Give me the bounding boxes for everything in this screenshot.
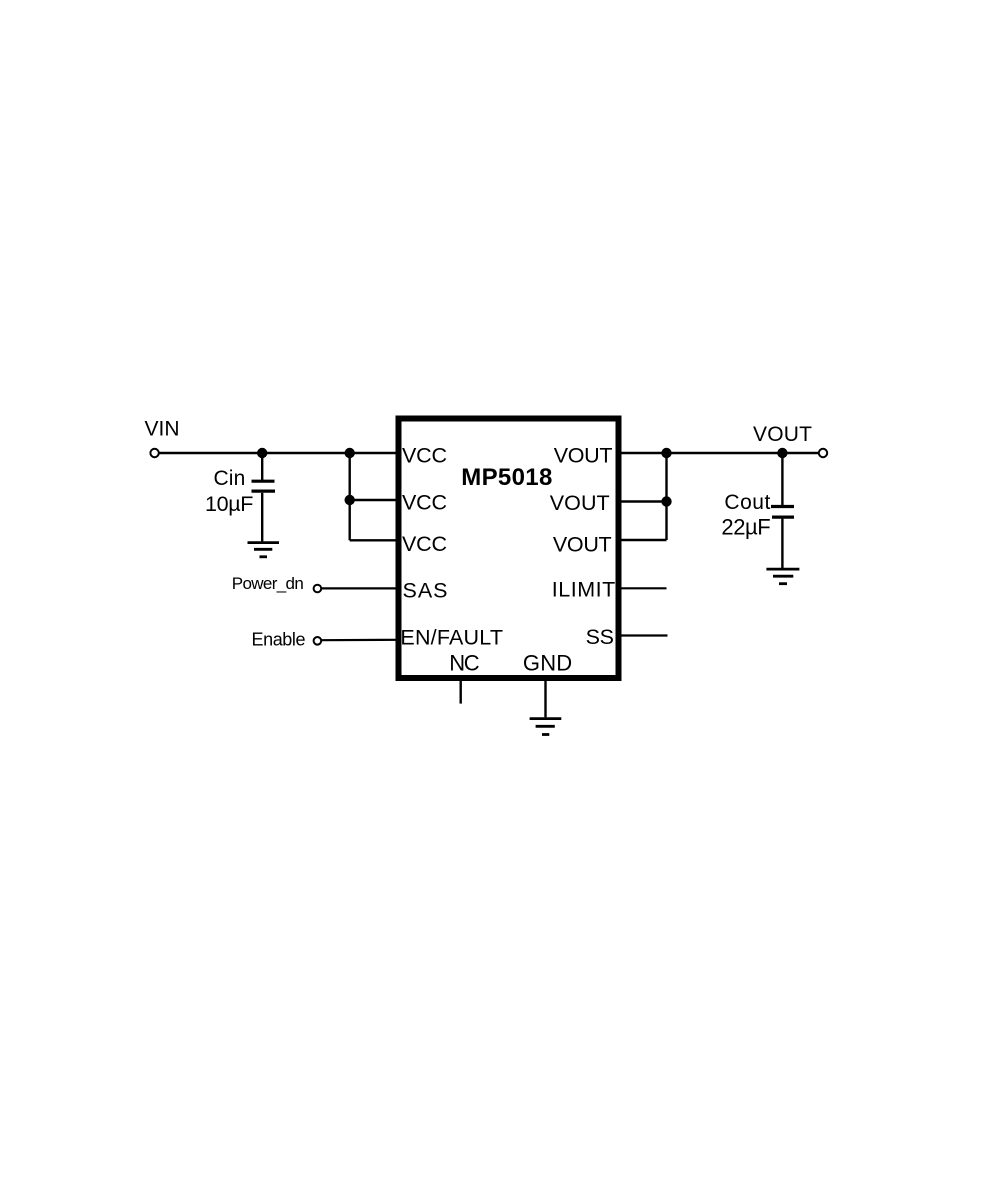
junction node VCC bus middle bbox=[345, 495, 355, 505]
wire SS stub bbox=[618, 634, 668, 636]
ground symbol (Cout) bbox=[766, 569, 799, 584]
wire to VOUT pin 3 bbox=[618, 539, 667, 541]
svg-text:VOUT: VOUT bbox=[550, 491, 610, 515]
terminal Power_dn (open circle) bbox=[314, 585, 322, 593]
junction node at Cin tap bbox=[257, 448, 267, 458]
junction node at Cout tap bbox=[777, 448, 787, 458]
svg-text:ILIMIT: ILIMIT bbox=[552, 578, 616, 602]
capacitor Cout plates bbox=[771, 507, 794, 518]
IC U1 MP5018 body bbox=[399, 419, 619, 679]
wire Cin bottom to ground bbox=[261, 493, 263, 542]
wire Cin top bbox=[261, 453, 263, 481]
wire to VCC pin 2 bbox=[350, 499, 399, 501]
wire Cout top bbox=[781, 453, 783, 505]
svg-text:22µF: 22µF bbox=[721, 514, 770, 539]
svg-text:EN/FAULT: EN/FAULT bbox=[400, 625, 503, 649]
svg-text:Cout: Cout bbox=[724, 491, 770, 514]
ground symbol (GND pin) bbox=[530, 719, 562, 735]
ground symbol (Cin) bbox=[248, 543, 280, 557]
wire Cout bottom to ground bbox=[781, 519, 783, 569]
junction node VOUT bus top bbox=[661, 448, 671, 458]
svg-text:VOUT: VOUT bbox=[753, 423, 812, 446]
terminal VOUT (open circle) bbox=[819, 449, 827, 457]
terminal Enable (open circle) bbox=[314, 637, 322, 645]
svg-text:SAS: SAS bbox=[403, 579, 448, 603]
svg-text:VOUT: VOUT bbox=[553, 533, 612, 557]
wire ILIMIT stub bbox=[618, 587, 667, 589]
svg-text:Enable: Enable bbox=[252, 630, 306, 650]
wire VOUT bus vertical bbox=[665, 453, 667, 540]
svg-text:VCC: VCC bbox=[402, 443, 447, 467]
svg-text:VCC: VCC bbox=[402, 491, 447, 515]
terminal VIN (open circle) bbox=[150, 449, 158, 457]
svg-text:VOUT: VOUT bbox=[554, 443, 613, 467]
junction node VCC bus top bbox=[345, 448, 355, 458]
wire to VOUT pin 2 bbox=[618, 500, 667, 502]
svg-text:10µF: 10µF bbox=[205, 492, 253, 516]
svg-text:Cin: Cin bbox=[214, 467, 246, 490]
wire Enable to EN/FAULT bbox=[322, 639, 399, 642]
svg-text:Power_dn: Power_dn bbox=[232, 574, 304, 593]
svg-text:SS: SS bbox=[586, 625, 614, 649]
junction node VOUT bus middle bbox=[661, 496, 671, 506]
wire Power_dn to SAS bbox=[322, 587, 399, 589]
svg-text:VIN: VIN bbox=[145, 417, 180, 440]
wire NC stub bbox=[460, 678, 462, 704]
svg-text:GND: GND bbox=[523, 651, 572, 676]
capacitor Cin plates bbox=[252, 481, 276, 491]
wire VIN to VCC pin 1 bbox=[159, 452, 399, 454]
wire VCC bus vertical bbox=[349, 453, 351, 540]
wire GND pin to ground bbox=[544, 678, 546, 717]
wire VOUT pin 1 to output terminal bbox=[618, 452, 818, 454]
svg-text:NC: NC bbox=[449, 651, 480, 676]
svg-text:MP5018: MP5018 bbox=[461, 464, 552, 491]
wire to VCC pin 3 bbox=[350, 539, 399, 541]
svg-text:VCC: VCC bbox=[402, 532, 447, 556]
